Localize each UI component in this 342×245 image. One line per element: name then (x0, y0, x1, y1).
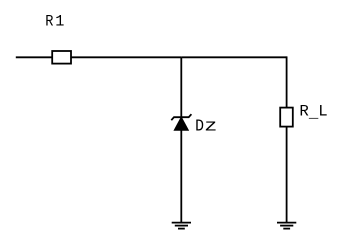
svg-text:D: D (195, 117, 204, 136)
wire right vertical down to R_L top pin (286, 56, 288, 108)
svg-text:1: 1 (55, 12, 64, 30)
wire R1 right pin to junction at node A (70, 56, 181, 58)
svg-text:R_L: R_L (299, 103, 327, 122)
wire junction to top-right corner (181, 56, 286, 58)
resistor R_L (280, 108, 293, 127)
wire junction down through zener Dz to left ground (180, 57, 182, 222)
resistor R1 (52, 51, 71, 64)
svg-text:z: z (204, 117, 217, 136)
ground (left, zener branch) (172, 223, 191, 229)
zener diode Dz (171, 114, 191, 130)
svg-text:R: R (45, 14, 53, 31)
label R1 (45, 12, 64, 31)
ground (right, load branch) (277, 223, 296, 229)
wire input to R1 left pin (16, 56, 53, 58)
label Dz (195, 117, 217, 136)
wire R_L bottom pin to right ground (286, 126, 288, 223)
